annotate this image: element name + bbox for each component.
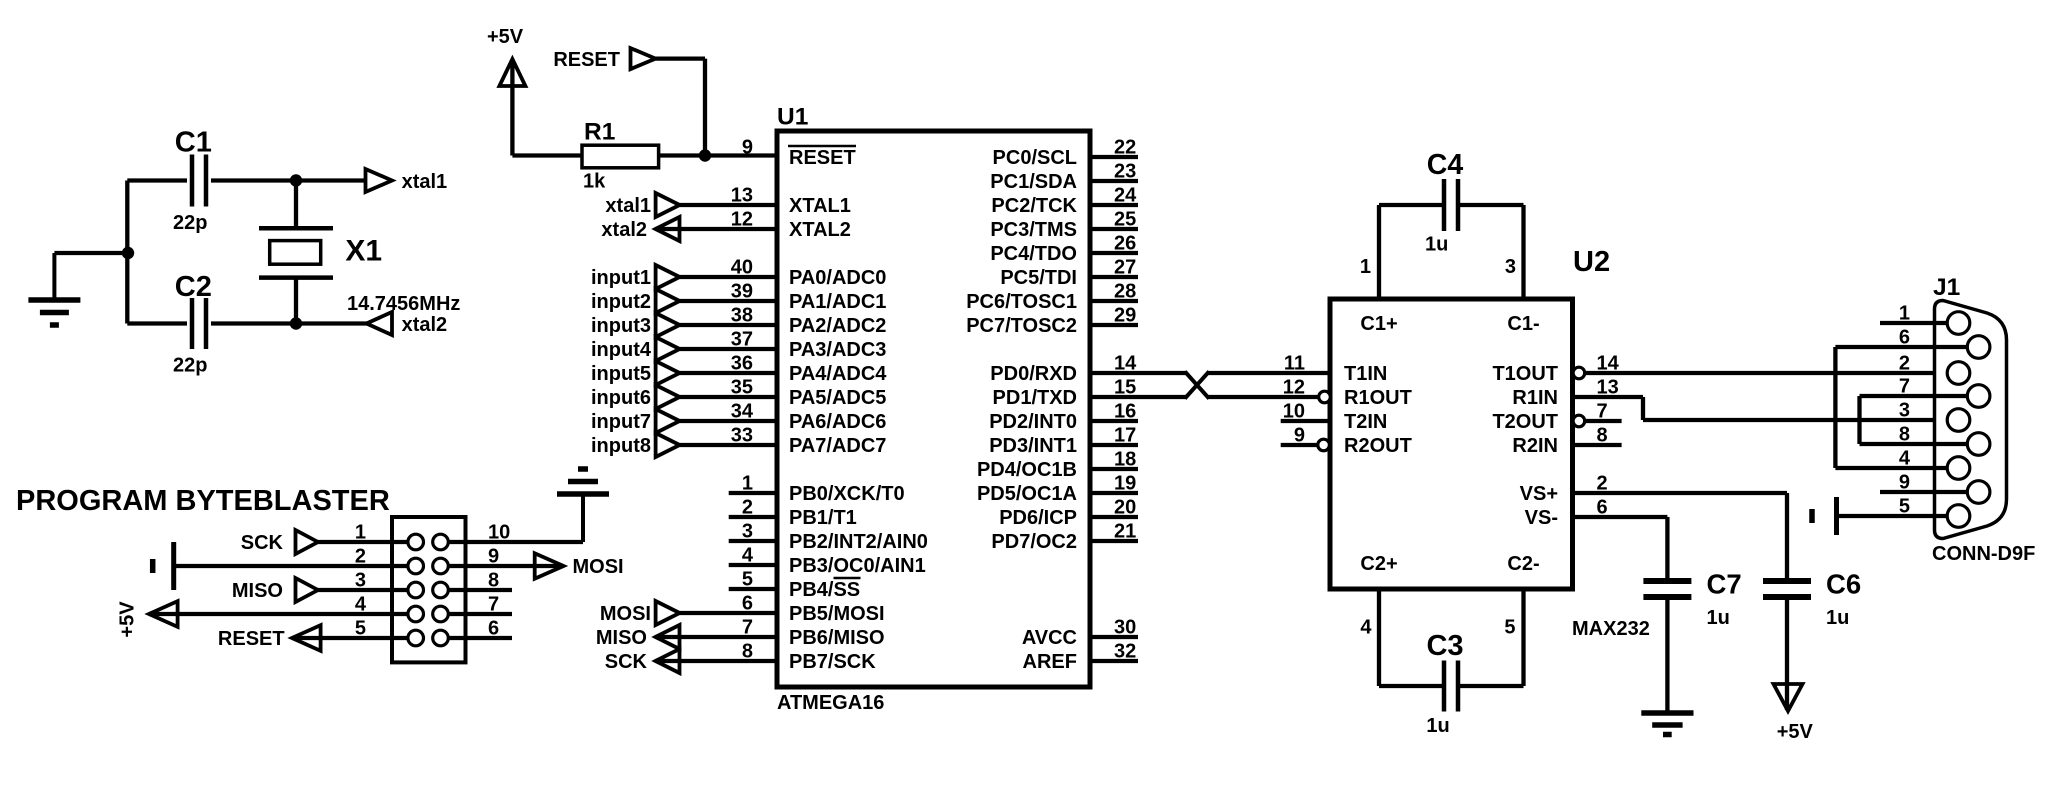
svg-text:input2: input2 [591,291,651,313]
svg-text:SCK: SCK [605,651,648,673]
svg-text:RESET: RESET [789,147,856,169]
svg-text:PB1/T1: PB1/T1 [789,507,857,529]
svg-text:xtal1: xtal1 [605,195,651,217]
svg-text:PD3/INT1: PD3/INT1 [989,435,1077,457]
svg-text:X1: X1 [345,235,382,268]
svg-text:T1IN: T1IN [1344,363,1387,385]
svg-text:XTAL1: XTAL1 [789,195,851,217]
svg-text:input8: input8 [591,435,651,457]
svg-text:AREF: AREF [1023,651,1077,673]
svg-text:PD0/RXD: PD0/RXD [990,363,1077,385]
svg-text:R1: R1 [584,119,615,146]
svg-text:R2OUT: R2OUT [1344,435,1412,457]
svg-text:3: 3 [355,570,366,592]
svg-text:12: 12 [1283,377,1305,399]
svg-text:T2IN: T2IN [1344,411,1387,433]
svg-text:1u: 1u [1425,234,1448,256]
svg-text:PA0/ADC0: PA0/ADC0 [789,267,886,289]
svg-text:R2IN: R2IN [1512,435,1558,457]
svg-text:PB4/SS: PB4/SS [789,579,860,601]
svg-text:C2-: C2- [1507,553,1539,575]
svg-text:PD5/OC1A: PD5/OC1A [977,483,1077,505]
svg-text:4: 4 [1360,617,1372,639]
svg-text:PA4/ADC4: PA4/ADC4 [789,363,887,385]
svg-text:4: 4 [355,594,367,616]
svg-text:PD1/TXD: PD1/TXD [993,387,1077,409]
svg-text:3: 3 [1505,256,1516,278]
svg-text:RESET: RESET [553,49,620,71]
svg-text:1: 1 [355,522,366,544]
svg-text:input7: input7 [591,411,651,433]
svg-text:1: 1 [1360,256,1371,278]
svg-text:PD2/INT0: PD2/INT0 [989,411,1077,433]
svg-text:5: 5 [1504,617,1515,639]
svg-text:PROGRAM BYTEBLASTER: PROGRAM BYTEBLASTER [16,485,390,517]
svg-text:3: 3 [1899,400,1910,422]
svg-text:AVCC: AVCC [1022,627,1077,649]
svg-text:11: 11 [1284,353,1305,375]
svg-text:PD4/OC1B: PD4/OC1B [977,459,1077,481]
svg-text:PA1/ADC1: PA1/ADC1 [789,291,886,313]
svg-text:xtal1: xtal1 [402,171,448,193]
svg-text:MISO: MISO [596,627,647,649]
svg-text:1u: 1u [1826,607,1849,629]
svg-text:PB7/SCK: PB7/SCK [789,651,876,673]
svg-text:RESET: RESET [218,628,285,650]
svg-text:xtal2: xtal2 [601,219,647,241]
svg-text:C2+: C2+ [1360,553,1397,575]
svg-text:MAX232: MAX232 [1572,618,1650,640]
svg-text:C7: C7 [1707,569,1742,600]
svg-text:PB0/XCK/T0: PB0/XCK/T0 [789,483,905,505]
svg-text:22p: 22p [173,212,207,234]
svg-text:2: 2 [355,546,366,568]
svg-text:PB6/MISO: PB6/MISO [789,627,885,649]
svg-text:PA5/ADC5: PA5/ADC5 [789,387,886,409]
svg-text:PD6/ICP: PD6/ICP [999,507,1077,529]
svg-text:1k: 1k [583,170,606,192]
svg-text:PB3/OC0/AIN1: PB3/OC0/AIN1 [789,555,926,577]
svg-text:input1: input1 [591,267,651,289]
svg-text:PC5/TDI: PC5/TDI [1000,267,1077,289]
svg-text:5: 5 [355,618,366,640]
svg-text:U2: U2 [1573,246,1610,278]
svg-text:C1-: C1- [1507,313,1539,335]
svg-text:+5V: +5V [1777,721,1814,743]
svg-text:C4: C4 [1427,149,1464,181]
svg-text:input3: input3 [591,315,651,337]
svg-text:C2: C2 [175,271,212,303]
svg-text:C1+: C1+ [1360,313,1397,335]
svg-text:VS+: VS+ [1520,483,1558,505]
svg-text:1u: 1u [1426,715,1449,737]
svg-text:CONN-D9F: CONN-D9F [1932,543,2035,565]
svg-text:xtal2: xtal2 [402,314,448,336]
svg-text:+5V: +5V [117,601,139,638]
svg-text:T2OUT: T2OUT [1492,411,1558,433]
svg-text:2: 2 [1899,353,1910,375]
svg-text:C6: C6 [1826,569,1861,600]
svg-text:input4: input4 [591,339,652,361]
svg-text:PA7/ADC7: PA7/ADC7 [789,435,886,457]
svg-text:PC1/SDA: PC1/SDA [990,171,1077,193]
svg-text:J1: J1 [1933,274,1960,301]
svg-text:XTAL2: XTAL2 [789,219,851,241]
svg-text:T1OUT: T1OUT [1492,363,1558,385]
svg-text:PA3/ADC3: PA3/ADC3 [789,339,886,361]
svg-text:7: 7 [488,594,499,616]
svg-text:9: 9 [742,137,753,159]
svg-text:PC6/TOSC1: PC6/TOSC1 [966,291,1077,313]
svg-text:+5V: +5V [487,26,524,48]
svg-text:PC2/TCK: PC2/TCK [991,195,1077,217]
svg-text:1u: 1u [1707,607,1730,629]
svg-text:input6: input6 [591,387,651,409]
svg-text:R1IN: R1IN [1512,387,1558,409]
svg-text:PA6/ADC6: PA6/ADC6 [789,411,886,433]
svg-text:PC0/SCL: PC0/SCL [993,147,1077,169]
svg-text:MOSI: MOSI [600,603,651,625]
svg-text:U1: U1 [777,104,808,131]
svg-text:R1OUT: R1OUT [1344,387,1412,409]
svg-text:input5: input5 [591,363,651,385]
svg-text:22p: 22p [173,355,207,377]
svg-text:VS-: VS- [1525,507,1558,529]
svg-text:MISO: MISO [232,580,283,602]
svg-text:C3: C3 [1426,630,1463,662]
svg-text:PA2/ADC2: PA2/ADC2 [789,315,886,337]
svg-text:PB5/MOSI: PB5/MOSI [789,603,885,625]
svg-text:ATMEGA16: ATMEGA16 [777,692,884,714]
svg-text:8: 8 [488,570,499,592]
svg-text:PC3/TMS: PC3/TMS [990,219,1077,241]
svg-text:SCK: SCK [241,532,284,554]
svg-text:9: 9 [488,546,499,568]
svg-text:C1: C1 [175,127,212,159]
svg-text:10: 10 [488,522,510,544]
svg-text:PB2/INT2/AIN0: PB2/INT2/AIN0 [789,531,928,553]
svg-text:PC7/TOSC2: PC7/TOSC2 [966,315,1077,337]
svg-text:14.7456MHz: 14.7456MHz [347,293,460,315]
svg-text:PC4/TDO: PC4/TDO [990,243,1077,265]
svg-text:6: 6 [488,618,499,640]
svg-text:PD7/OC2: PD7/OC2 [991,531,1077,553]
svg-text:MOSI: MOSI [573,556,624,578]
